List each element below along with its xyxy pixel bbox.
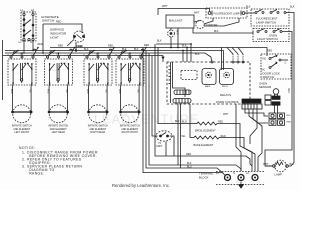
svg-text:RED: RED xyxy=(10,89,12,94)
terminal N xyxy=(238,175,244,181)
svg-text:WHT: WHT xyxy=(223,113,229,116)
broil element xyxy=(175,120,223,132)
svg-text:RED: RED xyxy=(287,88,289,93)
connector bar 1 xyxy=(174,90,191,95)
svg-text:SWITCH: SWITCH xyxy=(263,75,274,79)
svg-text:RIGHT FRONT: RIGHT FRONT xyxy=(122,131,139,134)
svg-text:BLK: BLK xyxy=(134,48,139,51)
wire nest left verticals xyxy=(143,48,226,176)
wire bus RED top xyxy=(50,48,267,57)
infinite switch 3 xyxy=(83,47,115,86)
svg-text:RED: RED xyxy=(267,50,272,53)
svg-text:C: C xyxy=(285,62,287,65)
svg-text:BLU: BLU xyxy=(182,121,187,124)
wire RED to lamp xyxy=(43,24,82,33)
svg-text:WHT: WHT xyxy=(176,30,178,36)
wire RED from alternate switch xyxy=(42,24,44,53)
svg-text:H2: H2 xyxy=(19,42,23,44)
alternate switch box xyxy=(19,8,37,44)
terminal L2 xyxy=(252,175,258,181)
relay broil xyxy=(220,69,234,89)
svg-text:BALLAST: BALLAST xyxy=(169,19,183,23)
svg-text:YEL: YEL xyxy=(29,89,31,94)
svg-text:RED: RED xyxy=(287,122,292,124)
thermal cutout xyxy=(168,28,175,48)
label surface indicator light xyxy=(50,28,67,40)
wire right inner xyxy=(265,32,292,167)
svg-text:RELAYS: RELAYS xyxy=(220,93,231,97)
notice text xyxy=(19,146,98,176)
fluorescent lamp xyxy=(206,8,247,18)
door lock switch xyxy=(261,50,291,80)
svg-text:RED: RED xyxy=(38,43,43,46)
ground xyxy=(239,182,244,189)
svg-text:SWITCH: SWITCH xyxy=(42,19,54,23)
oven sensor xyxy=(259,82,289,114)
svg-text:BROIL ELEMENT: BROIL ELEMENT xyxy=(195,128,216,132)
wire terminal feeds xyxy=(244,148,255,171)
wire element returns xyxy=(217,124,252,172)
connector bar 2 xyxy=(173,99,191,104)
svg-text:BLU: BLU xyxy=(187,166,192,169)
wires connector to plugs xyxy=(245,109,268,116)
oven light switch xyxy=(253,29,289,42)
ballast xyxy=(166,12,200,29)
svg-text:BROIL: BROIL xyxy=(222,86,229,88)
svg-text:RED: RED xyxy=(78,45,83,48)
svg-text:BLK: BLK xyxy=(157,40,162,43)
svg-text:L1: L1 xyxy=(20,8,23,12)
svg-text:RED: RED xyxy=(108,45,113,48)
svg-text:BLK: BLK xyxy=(246,6,251,9)
svg-text:BAKE ELEMENT: BAKE ELEMENT xyxy=(194,143,214,147)
wire relay feeds xyxy=(221,48,223,71)
quick disconnect plugs xyxy=(269,113,285,125)
svg-text:RED: RED xyxy=(186,153,191,156)
wire L1 left feed xyxy=(2,40,4,100)
terminal block xyxy=(199,172,264,185)
svg-text:LEFT FRONT: LEFT FRONT xyxy=(14,131,29,134)
svg-text:BLK: BLK xyxy=(182,44,187,47)
svg-text:LIMIT: LIMIT xyxy=(156,145,163,148)
svg-text:SENSOR: SENSOR xyxy=(259,85,271,89)
fluorescent lamp switch xyxy=(251,9,289,26)
svg-text:RED: RED xyxy=(47,89,49,94)
svg-text:Rendered by LeadVenture, Inc.: Rendered by LeadVenture, Inc. xyxy=(112,183,170,188)
svg-text:H1: H1 xyxy=(31,42,35,44)
wire bus 2 xyxy=(5,50,224,52)
svg-text:FLUORESCENT LAMP: FLUORESCENT LAMP xyxy=(214,12,240,15)
svg-text:LIGHT SWITCH: LIGHT SWITCH xyxy=(257,37,278,41)
svg-text:NOTICE:: NOTICE: xyxy=(19,146,36,150)
svg-text:RED: RED xyxy=(58,45,63,48)
connector small squares xyxy=(265,95,271,105)
svg-text:BLOCK: BLOCK xyxy=(199,176,209,180)
svg-text:LAMP SWITCH: LAMP SWITCH xyxy=(256,21,276,25)
svg-text:WHT: WHT xyxy=(162,5,168,8)
svg-text:OVEN CONTROL: OVEN CONTROL xyxy=(216,100,240,104)
svg-text:BLK: BLK xyxy=(214,30,219,33)
svg-text:BLK: BLK xyxy=(290,6,295,9)
wire right outer xyxy=(286,13,294,167)
svg-text:L2: L2 xyxy=(246,172,249,175)
svg-text:BLK: BLK xyxy=(195,53,200,56)
terminal L1 xyxy=(225,175,231,181)
bake element xyxy=(181,135,226,147)
surface element right rear xyxy=(86,86,108,134)
svg-text:RED: RED xyxy=(86,89,88,94)
svg-text:NO: NO xyxy=(263,58,267,61)
svg-text:YEL: YEL xyxy=(105,89,107,94)
svg-text:L2: L2 xyxy=(31,8,34,12)
hi limit xyxy=(156,131,174,156)
svg-text:LEFT REAR: LEFT REAR xyxy=(52,131,65,134)
wires into control top xyxy=(182,51,184,63)
svg-text:LIGHT: LIGHT xyxy=(50,36,59,40)
svg-text:RANGE.: RANGE. xyxy=(29,172,44,176)
wire BLK to oven light switch xyxy=(193,28,253,33)
surface element left rear xyxy=(47,86,69,134)
oven control box xyxy=(167,62,250,104)
svg-text:RED: RED xyxy=(118,89,120,94)
svg-text:BLK: BLK xyxy=(175,120,180,123)
svg-text:LAMP: LAMP xyxy=(275,172,283,176)
starter xyxy=(194,18,239,29)
indicator lamp xyxy=(23,31,89,54)
svg-text:WHT: WHT xyxy=(263,163,269,166)
svg-text:YEL: YEL xyxy=(65,89,67,94)
wire bus 4 xyxy=(3,55,164,57)
clock dashed xyxy=(181,71,197,80)
wire connector drops xyxy=(177,104,179,165)
relay bake xyxy=(202,69,216,89)
infinite switch 4 xyxy=(115,47,147,86)
wire bus 3 xyxy=(5,53,212,61)
svg-text:RED: RED xyxy=(144,44,149,47)
wire broil feed xyxy=(189,104,191,138)
svg-text:RED: RED xyxy=(56,21,61,24)
svg-text:N: N xyxy=(233,172,235,175)
svg-text:BLK: BLK xyxy=(290,163,295,166)
oven lamp xyxy=(263,160,294,176)
svg-text:WHT: WHT xyxy=(194,12,200,15)
surface element right front xyxy=(118,86,140,134)
control board edge xyxy=(169,62,186,103)
control connector xyxy=(242,99,262,109)
infinite switch 1 xyxy=(7,47,39,86)
infinite switch 2 xyxy=(44,47,76,86)
svg-text:YEL: YEL xyxy=(137,89,139,94)
svg-text:BLK: BLK xyxy=(287,115,292,117)
surface element left front xyxy=(10,86,32,134)
wire WHT vertical xyxy=(177,28,179,48)
svg-text:YEL: YEL xyxy=(181,135,186,138)
svg-text:LEADVENTURE: LEADVENTURE xyxy=(94,113,200,127)
svg-text:BAKE: BAKE xyxy=(205,85,211,88)
svg-text:RIGHT REAR: RIGHT REAR xyxy=(90,131,105,134)
wire BLK fluorescent xyxy=(245,12,255,14)
